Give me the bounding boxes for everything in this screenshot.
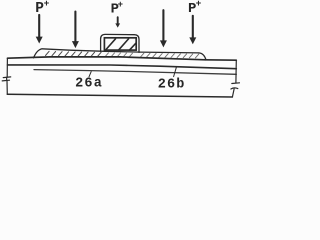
svg-text:+: + xyxy=(118,0,123,10)
svg-text:+: + xyxy=(44,0,50,9)
mesa top line with shoulders xyxy=(34,49,207,60)
thin film hatch dashes right xyxy=(141,53,199,58)
implant arrow 2 xyxy=(72,12,79,49)
svg-text:+: + xyxy=(196,0,202,9)
gate electrode (hatched rectangle) xyxy=(104,38,136,50)
implant arrow 5 xyxy=(189,16,196,45)
gate hatch line 3 (partial) xyxy=(130,43,136,50)
left broken edge xyxy=(2,58,11,94)
gate hatch line 2 xyxy=(119,39,129,50)
implant arrow 3 (short, middle) xyxy=(115,17,120,27)
label P+ right xyxy=(188,0,202,17)
label P+ left xyxy=(35,0,49,17)
svg-text:26a: 26a xyxy=(75,77,103,92)
wafer surface line xyxy=(8,57,237,60)
substrate bottom line xyxy=(7,94,232,97)
right broken edge xyxy=(231,60,240,97)
implant arrow 1 xyxy=(36,15,43,44)
leader line for 26a xyxy=(89,72,91,77)
thin film hatch dashes xyxy=(46,51,102,56)
gate cap outline (rounded) xyxy=(101,34,139,52)
svg-text:26b: 26b xyxy=(158,78,186,93)
label P+ middle xyxy=(111,0,123,18)
thin film hatch dashes under gate xyxy=(106,53,133,57)
implant arrow 4 xyxy=(160,10,167,47)
gate hatch line 1 xyxy=(106,39,116,50)
implanted region bottom boundary xyxy=(34,70,236,75)
leader line for 26b xyxy=(174,67,177,76)
interface line xyxy=(8,65,237,69)
